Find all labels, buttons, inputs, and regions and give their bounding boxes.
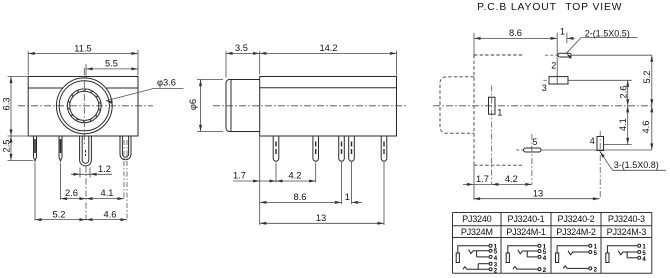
svg-text:5.5: 5.5	[105, 59, 118, 69]
PCB pad 2	[545, 33, 652, 85]
dimension 13 side	[260, 162, 384, 225]
dimension 1.2 center pin width	[71, 164, 112, 177]
terminal pin 1	[638, 244, 641, 247]
dimension 6.3 front height	[2, 77, 28, 137]
svg-text:4.1: 4.1	[101, 188, 114, 198]
front view right lug terminal	[120, 136, 131, 160]
svg-text:14.2: 14.2	[319, 43, 337, 53]
switch bar to pin 4	[476, 251, 478, 257]
dimension 4.2 side	[276, 163, 316, 183]
terminal pin 2	[589, 267, 592, 270]
PCB centerline	[433, 105, 654, 107]
table grid	[453, 213, 652, 274]
svg-text:PJ324M: PJ324M	[461, 227, 493, 237]
terminal pin 1	[589, 244, 592, 247]
dimension 1 side pin pitch	[345, 162, 362, 204]
side view pin 4	[349, 136, 355, 161]
svg-text:3: 3	[542, 83, 547, 93]
side view pin 2	[313, 136, 319, 161]
terminal pin 1	[538, 244, 541, 247]
terminal pin 3	[489, 262, 492, 265]
front view body	[28, 77, 138, 137]
svg-text:4.2: 4.2	[289, 171, 302, 181]
wire pin 2 with tip contact	[513, 267, 538, 270]
svg-text:11.5: 11.5	[74, 43, 91, 53]
dimension 13 pcb	[474, 188, 600, 200]
dimension 8.6 side	[260, 162, 342, 204]
dimension 1.7 and 4.2 pcb	[463, 165, 532, 200]
schematic sleeve terminal	[456, 253, 459, 263]
svg-text:2.5: 2.5	[2, 140, 12, 153]
side view pin 5	[381, 136, 387, 161]
svg-text:13: 13	[316, 213, 326, 223]
svg-text:2.6: 2.6	[618, 86, 628, 99]
dimension 4.6 pcb right	[641, 106, 653, 150]
wire pin 2 with tip contact	[463, 267, 489, 270]
schematic cell PJ3240-2	[556, 244, 598, 273]
PCB pad 5	[516, 134, 652, 184]
svg-text:PJ3240-2: PJ3240-2	[558, 214, 595, 224]
wire pin 5 with spring contact	[568, 251, 589, 255]
svg-text:1: 1	[560, 27, 565, 37]
svg-text:PJ3240-3: PJ3240-3	[608, 214, 645, 224]
svg-text:6.3: 6.3	[2, 98, 12, 111]
terminal pin 4	[489, 255, 492, 258]
svg-text:PJ324M-1: PJ324M-1	[506, 227, 546, 237]
svg-text:5.2: 5.2	[53, 209, 66, 219]
svg-text:1.7: 1.7	[233, 171, 246, 181]
terminal pin 4	[638, 256, 641, 259]
svg-text:φ3.6: φ3.6	[157, 78, 176, 88]
dimension 2.5	[2, 136, 34, 161]
dimension 1 pcb	[560, 27, 575, 40]
PCB dashed body outline	[474, 55, 523, 165]
svg-text:φ6: φ6	[188, 99, 198, 110]
wire pin 5 with spring contact	[469, 250, 490, 254]
PCB dashed barrel outline	[440, 77, 474, 133]
terminal pin 5	[489, 249, 492, 252]
wire sleeve to pin 1	[508, 246, 538, 253]
side view pin 3	[339, 136, 345, 161]
terminal pin 2	[538, 268, 541, 271]
terminal pin 2	[489, 268, 492, 271]
dimension 3.5 barrel length	[226, 43, 260, 77]
svg-text:4.6: 4.6	[641, 121, 651, 134]
schematic cell PJ3240	[456, 244, 498, 274]
side view barrel	[226, 80, 260, 132]
wire pin 5 with spring contact	[518, 250, 538, 254]
svg-text:P.C.B LAYOUT: P.C.B LAYOUT	[477, 2, 557, 13]
svg-text:5.2: 5.2	[642, 71, 652, 84]
wire pin 5 with spring contact	[618, 251, 638, 255]
svg-text:TOP VIEW: TOP VIEW	[565, 2, 622, 13]
svg-text:1.2: 1.2	[98, 164, 111, 174]
side view pin 1	[273, 136, 279, 161]
svg-text:2-(1.5X0.5): 2-(1.5X0.5)	[585, 29, 630, 39]
terminal pin 1	[489, 244, 492, 247]
terminal pin 5	[638, 251, 641, 254]
terminal pin 5	[589, 251, 592, 254]
schematic cell PJ3240-3	[606, 244, 647, 263]
wire sleeve to pin 1	[607, 246, 637, 253]
terminal pin 5	[538, 250, 541, 253]
switch bar to pin 4	[626, 252, 628, 258]
dimension 5.2 and 4.6 front	[35, 140, 127, 221]
schematic sleeve terminal	[506, 253, 509, 263]
svg-text:PJ324M-2: PJ324M-2	[556, 227, 596, 237]
dimension 11.5 front width	[28, 43, 138, 75]
dimension 8.6 pcb	[474, 28, 557, 55]
PCB pad 3	[542, 77, 632, 93]
front view pin A (left lug)	[34, 136, 37, 161]
leader 3-(1.5X0.8)	[600, 151, 666, 170]
dimension 5.5	[86, 59, 138, 78]
leader phi 3.6 hole	[106, 78, 184, 104]
dimension 5.2 pcb right	[642, 55, 653, 106]
dimension 4.1 pcb right	[618, 106, 629, 145]
PCB pad 1	[489, 86, 503, 185]
terminal pin 4	[538, 255, 541, 258]
svg-text:1: 1	[345, 192, 350, 202]
svg-text:4.6: 4.6	[104, 209, 117, 219]
wire sleeve to pin 1	[557, 246, 589, 253]
svg-text:8.6: 8.6	[509, 28, 522, 38]
leader 2-(1.5X0.5)	[567, 29, 638, 59]
dimension 2.6 and 4.1 front	[61, 140, 125, 200]
dimension 14.2 body length	[260, 43, 397, 75]
switch bar to pin 4	[526, 251, 528, 257]
svg-text:2.6: 2.6	[65, 188, 78, 198]
PCB layout title	[477, 2, 622, 13]
svg-text:1.7: 1.7	[476, 174, 489, 184]
schematic sleeve terminal	[606, 253, 609, 263]
svg-text:4: 4	[590, 136, 595, 146]
wire pin 2 with tip contact	[563, 266, 588, 269]
svg-text:5: 5	[532, 137, 537, 147]
svg-text:8.6: 8.6	[294, 192, 307, 202]
front view centerlines	[18, 68, 153, 144]
svg-text:4.2: 4.2	[505, 174, 518, 184]
svg-text:PJ324M-3: PJ324M-3	[607, 227, 647, 237]
svg-text:13: 13	[533, 188, 543, 198]
front view pin B	[59, 136, 62, 161]
svg-text:3-(1.5X0.8): 3-(1.5X0.8)	[614, 160, 659, 170]
svg-text:3.5: 3.5	[235, 43, 248, 53]
side view centerline	[213, 105, 407, 107]
svg-text:PJ3240-1: PJ3240-1	[508, 214, 545, 224]
front view jack barrel circles	[56, 78, 112, 134]
side view body	[260, 77, 397, 137]
wire sleeve to pin 1	[458, 246, 489, 253]
front view center ring terminal	[80, 136, 92, 166]
svg-text:PJ3240: PJ3240	[462, 214, 492, 224]
schematic cell PJ3240-1	[506, 244, 547, 274]
schematic sleeve terminal	[556, 253, 559, 263]
switch bar pin 3	[477, 264, 479, 270]
dimension 2.6 pcb right	[618, 80, 629, 106]
svg-text:2: 2	[551, 60, 556, 70]
dimension 1.7 side	[233, 136, 276, 225]
svg-text:1: 1	[497, 108, 502, 118]
svg-text:4.1: 4.1	[618, 118, 628, 131]
PCB pad 4	[590, 131, 632, 199]
dimension phi 6 barrel diameter	[188, 80, 223, 132]
